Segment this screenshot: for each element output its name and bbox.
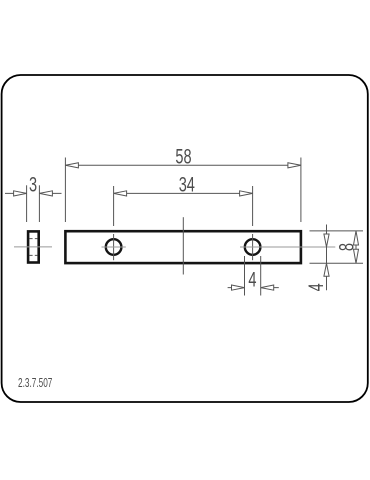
- dimension 58: [65, 158, 301, 223]
- svg-text:4: 4: [304, 283, 327, 291]
- svg-text:58: 58: [175, 145, 191, 168]
- plate side view: [28, 231, 39, 262]
- svg-text:2.3.7.507: 2.3.7.507: [18, 376, 52, 390]
- hole left centerlines: [113, 234, 115, 260]
- svg-text:3: 3: [29, 173, 37, 196]
- dimension 4 right side: [324, 225, 329, 291]
- hole right centerlines: [252, 234, 254, 260]
- dimension 3: [5, 185, 62, 222]
- svg-text:8: 8: [335, 243, 358, 251]
- dimension 8 height: [310, 231, 364, 263]
- hole left: [106, 239, 122, 255]
- plate middle centerline: [182, 217, 184, 274]
- dimension 4 hole diameter: [228, 256, 279, 296]
- centerline side view: [14, 246, 52, 248]
- svg-text:34: 34: [179, 173, 195, 196]
- svg-text:4: 4: [248, 268, 256, 291]
- dimension 34: [114, 186, 253, 226]
- hole right: [245, 239, 261, 255]
- hidden hole lines side view: [29, 239, 37, 256]
- border frame: [2, 75, 368, 402]
- plate outline front view: [65, 231, 301, 263]
